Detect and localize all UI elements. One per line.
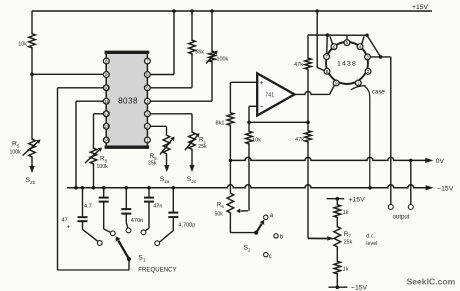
svg-text:−15V: −15V <box>437 185 454 192</box>
svg-text:S2: S2 <box>244 245 252 253</box>
svg-text:R5: R5 <box>12 141 20 149</box>
svg-text:S2b: S2b <box>26 177 36 185</box>
svg-text:+15V: +15V <box>349 196 366 203</box>
svg-text:case: case <box>372 88 386 95</box>
svg-text:100k: 100k <box>10 150 22 156</box>
svg-text:100k: 100k <box>97 164 109 170</box>
svg-text:50k: 50k <box>215 211 224 217</box>
svg-text:SeekIC.com: SeekIC.com <box>407 277 456 287</box>
svg-text:47k: 47k <box>294 62 303 68</box>
svg-text:+15V: +15V <box>412 4 429 11</box>
svg-text:−: − <box>259 103 263 110</box>
svg-text:FREQUENCY: FREQUENCY <box>138 267 176 274</box>
svg-text:14: 14 <box>104 138 110 143</box>
svg-text:13: 13 <box>104 124 110 129</box>
svg-text:c: c <box>269 254 272 260</box>
svg-text:R7: R7 <box>344 231 352 239</box>
svg-text:S2c: S2c <box>187 176 197 184</box>
svg-text:10k: 10k <box>252 137 261 143</box>
svg-text:−15V: −15V <box>351 284 368 291</box>
svg-text:11: 11 <box>104 99 109 104</box>
svg-text:10: 10 <box>104 85 110 90</box>
svg-text:1k: 1k <box>343 210 349 216</box>
svg-text:R8: R8 <box>100 156 108 164</box>
svg-text:8038: 8038 <box>118 96 138 105</box>
svg-text:470n: 470n <box>131 218 143 224</box>
svg-text:4.7: 4.7 <box>84 203 92 209</box>
svg-text:4,700p: 4,700p <box>178 222 195 228</box>
svg-text:12: 12 <box>104 111 110 116</box>
svg-text:a: a <box>270 213 274 219</box>
svg-text:+: + <box>67 225 71 231</box>
svg-text:56k: 56k <box>195 50 204 56</box>
svg-text:10k: 10k <box>18 42 27 48</box>
svg-text:25k: 25k <box>198 144 207 150</box>
svg-text:0V: 0V <box>436 158 445 165</box>
svg-text:47n: 47n <box>153 203 162 209</box>
svg-text:b: b <box>280 235 284 241</box>
svg-text:R6: R6 <box>217 201 225 209</box>
svg-text:47: 47 <box>62 218 68 224</box>
svg-text:8k1: 8k1 <box>216 120 225 126</box>
svg-text:25k: 25k <box>148 161 157 167</box>
svg-text:S2a: S2a <box>160 176 170 184</box>
svg-text:741: 741 <box>265 93 274 99</box>
svg-text:1438: 1438 <box>337 60 357 67</box>
svg-text:47k: 47k <box>295 137 304 143</box>
svg-text:d.c.: d.c. <box>366 233 375 239</box>
svg-text:25k: 25k <box>344 239 353 245</box>
svg-text:level: level <box>366 241 377 247</box>
svg-text:+: + <box>259 80 263 87</box>
svg-text:100k: 100k <box>217 57 229 63</box>
svg-text:1k: 1k <box>343 266 349 272</box>
svg-text:output: output <box>393 214 410 220</box>
svg-text:S1: S1 <box>138 255 146 263</box>
